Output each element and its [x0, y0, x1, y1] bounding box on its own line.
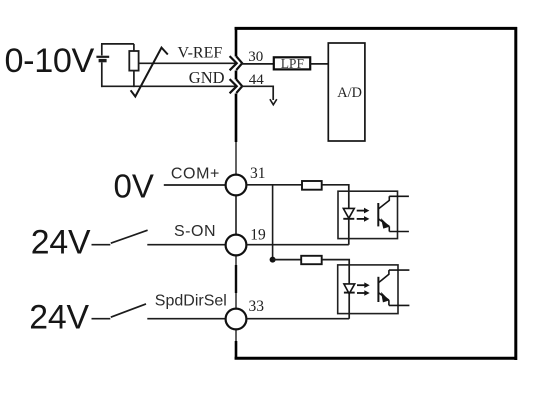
wire (darker overlay segment between pins 19 and 33): [235, 265, 237, 293]
drive enclosure box (bottom edge): [235, 357, 517, 360]
wire (LPF to A/D): [310, 63, 328, 65]
twisted-pair / wiper arrow zigzag: [131, 48, 168, 97]
wire (pin 19 to opto 1 LED cathode): [246, 244, 348, 246]
wire (COM+ branch down to junction): [272, 185, 274, 260]
optocoupler U1 emitter lead: [389, 231, 409, 233]
switch S-ON (blade): [111, 230, 148, 243]
svg-text:V-REF: V-REF: [178, 45, 223, 62]
svg-text:0-10V: 0-10V: [5, 42, 95, 80]
wire GND (battery minus rail to pin 44 connector): [101, 85, 236, 87]
svg-text:LPF: LPF: [281, 56, 305, 71]
switch SpdDirSel (blade): [111, 304, 146, 317]
optocoupler U1 collector lead: [389, 195, 409, 197]
optocoupler U2 collector lead: [389, 269, 410, 271]
LPF block: [274, 57, 310, 69]
A/D converter block: [328, 43, 365, 141]
pin circle 31: [226, 175, 247, 196]
svg-text:A/D: A/D: [337, 85, 362, 101]
optocoupler U2 emitter lead: [389, 304, 410, 306]
svg-text:30: 30: [248, 49, 263, 65]
resistor R1: [302, 181, 322, 190]
drive enclosure box (left edge upper thick segments with connector gaps): [235, 27, 238, 57]
switch SpdDirSel (left lead): [92, 318, 111, 320]
wire (potentiometer bottom to GND rail): [133, 71, 135, 88]
wire (pin 44 to analog ground): [242, 86, 274, 100]
analog ground arrow: [270, 99, 277, 105]
svg-text:S-ON: S-ON: [174, 223, 216, 240]
optocoupler U1 light arrows: [357, 210, 365, 212]
optocoupler U1 box: [338, 191, 398, 238]
svg-text:33: 33: [249, 298, 265, 315]
svg-text:COM+: COM+: [171, 165, 220, 182]
wire (R1 to opto 1 LED): [322, 185, 349, 245]
wire (pin 31 to resistor R1): [246, 184, 302, 186]
potentiometer RP1 body: [129, 51, 138, 71]
optocoupler U1 phototransistor: [377, 203, 379, 226]
optocoupler U2 LED: [344, 284, 355, 294]
svg-text:SpdDirSel: SpdDirSel: [155, 293, 227, 310]
pin circle 19: [226, 235, 247, 256]
svg-text:0V: 0V: [114, 167, 154, 204]
switch S-ON (left lead): [92, 244, 111, 246]
wire COM+ (0V to pin 31): [164, 184, 226, 186]
wire (R2 to opto 2 LED): [322, 260, 350, 319]
resistor R2: [301, 256, 322, 264]
drive enclosure box (left edge lower thick segment): [235, 341, 238, 360]
wire (battery top rail to potentiometer): [101, 43, 134, 45]
pin circle 33: [226, 309, 247, 330]
drive enclosure box (left edge thin wire segments between pin circles): [235, 142, 237, 175]
svg-text:24V: 24V: [29, 299, 89, 337]
wire V-REF (pot wiper to pin 30 connector): [139, 62, 236, 64]
optocoupler U2 light arrows: [357, 284, 365, 286]
drive enclosure box (top edge): [235, 27, 517, 30]
wire (pin 30 to LPF): [242, 63, 274, 65]
svg-text:24V: 24V: [31, 224, 91, 262]
drive enclosure box (right edge): [514, 27, 517, 360]
optocoupler U2 phototransistor: [377, 277, 379, 302]
optocoupler U2 box: [338, 265, 398, 314]
svg-text:19: 19: [250, 227, 266, 244]
connector chevron pin 44: [230, 79, 237, 93]
svg-text:31: 31: [250, 165, 266, 182]
optocoupler U1 LED: [343, 208, 354, 218]
junction dot: [270, 257, 276, 263]
wire (junction to resistor R2): [273, 259, 302, 261]
connector chevron pin 30: [230, 56, 237, 70]
wire SpdDirSel (switch to pin 33): [147, 318, 225, 320]
svg-text:GND: GND: [189, 68, 225, 87]
wire S-ON (switch to pin 19): [147, 244, 226, 246]
wire (pin 33 to opto 2 LED cathode): [246, 318, 349, 320]
battery B1 (0-10V source): [101, 44, 103, 56]
